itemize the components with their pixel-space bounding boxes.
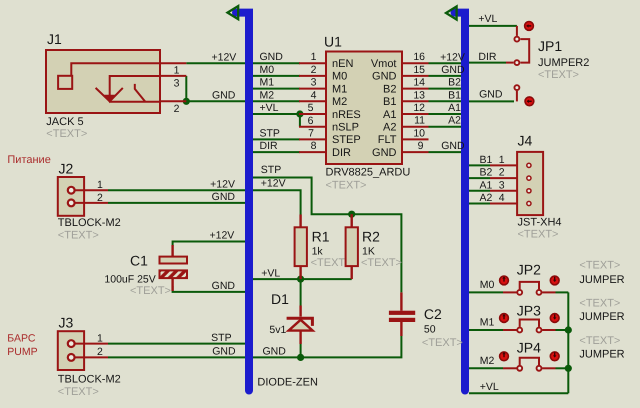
svg-text:GND: GND <box>212 191 236 203</box>
svg-text:FLT: FLT <box>378 134 397 146</box>
R1 top lead <box>299 215 301 228</box>
svg-text:+12V: +12V <box>440 51 465 63</box>
wire +12V J2 pin1 across bus to R1 top <box>108 190 301 214</box>
connector J1 JACK 5 <box>46 31 186 140</box>
wire STP left bus to U1 pin7 <box>253 138 300 140</box>
wire +VL bottom right bus to JP common <box>469 392 568 394</box>
svg-text:1K: 1K <box>362 246 375 258</box>
J3 pin circles <box>68 340 75 347</box>
JP1 jumper link bracket <box>520 39 529 63</box>
svg-text:B1: B1 <box>448 89 461 101</box>
wire +VL from left bus to R1/R2 bottoms <box>253 278 352 280</box>
svg-text:1: 1 <box>97 333 103 345</box>
svg-text:10: 10 <box>413 127 425 139</box>
bus left entry arrow <box>228 6 239 19</box>
JP2 pin circles <box>517 290 522 295</box>
J3 body <box>58 331 84 370</box>
svg-text:<TEXT>: <TEXT> <box>46 128 87 140</box>
C2 bottom lead <box>400 322 402 336</box>
junction node D1 anode / GND <box>297 354 304 361</box>
svg-text:3: 3 <box>499 179 505 191</box>
resistor R1 1k <box>295 215 352 280</box>
bus right entry arrow <box>446 6 457 19</box>
wire GND left bus to U1 pin1 <box>253 62 300 64</box>
J1 pin stubs <box>160 63 186 101</box>
wire U1 pin5 node down to pin6 <box>299 114 301 127</box>
svg-text:100uF 25V: 100uF 25V <box>104 274 155 286</box>
svg-text:4: 4 <box>311 89 317 101</box>
R1 body <box>295 227 307 266</box>
svg-text:R2: R2 <box>362 229 380 245</box>
JP1 pin 2 circle <box>514 60 519 65</box>
svg-text:D1: D1 <box>271 291 289 307</box>
wire GND J1 pin2 to left bus <box>186 100 245 102</box>
wire STP J3 pin1 to left bus <box>108 343 245 345</box>
svg-text:A2: A2 <box>383 122 396 134</box>
bus left <box>236 13 249 391</box>
svg-text:U1: U1 <box>324 34 342 50</box>
wire GND C1 bottom to left bus <box>173 286 245 292</box>
J2 pin stubs <box>75 189 108 191</box>
J1 body <box>46 50 160 113</box>
wire STP from left bus to R2/C2 top <box>253 178 401 293</box>
svg-text:16: 16 <box>413 51 425 63</box>
JP3 jumper link bracket <box>520 320 539 327</box>
wire DIR left bus to U1 pin8 <box>253 151 300 153</box>
wire M0 right bus to JP2 <box>469 291 503 293</box>
svg-text:<TEXT>: <TEXT> <box>58 230 99 242</box>
svg-text:B1: B1 <box>383 96 396 108</box>
svg-text:12: 12 <box>413 102 425 114</box>
J4 body <box>517 152 543 215</box>
svg-text:nRES: nRES <box>332 109 361 121</box>
JP4 jumper link bracket <box>520 358 539 365</box>
svg-text:M1: M1 <box>260 77 275 89</box>
svg-text:JUMPER: JUMPER <box>579 274 624 286</box>
wire M0 left bus to U1 pin2 <box>253 75 300 77</box>
svg-text:1: 1 <box>311 51 317 63</box>
svg-text:J2: J2 <box>59 161 74 177</box>
wire U1 pin9 to right bus <box>429 151 462 153</box>
U1 pin stubs 1-16 <box>299 63 429 152</box>
svg-text:15: 15 <box>413 64 425 76</box>
connector J3 TBLOCK-M2 <box>58 315 121 399</box>
JP1 pin 1 circle <box>514 37 519 42</box>
JP4 pad markers <box>500 352 509 361</box>
svg-text:+12V: +12V <box>209 230 234 242</box>
svg-text:БАРС: БАРС <box>7 333 36 345</box>
JP3 pin circles <box>517 328 522 333</box>
jumper JP3 JUMPER <box>500 303 559 333</box>
svg-text:M1: M1 <box>332 83 347 95</box>
wire A2 right bus to J4 pin4 <box>469 203 490 205</box>
svg-text:J4: J4 <box>518 133 533 149</box>
C1 positive plate <box>160 257 188 264</box>
svg-text:2: 2 <box>97 192 103 204</box>
svg-text:1: 1 <box>174 65 180 77</box>
junction node U1 pin5/pin6 <box>296 110 303 117</box>
wire B1 right bus to J4 pin1 <box>469 164 490 166</box>
JP1 pin 1 lead <box>516 26 518 36</box>
svg-text:GND: GND <box>372 71 397 83</box>
svg-text:8: 8 <box>311 140 317 152</box>
JP2 pin stubs <box>503 291 517 293</box>
svg-text:1k: 1k <box>312 246 324 258</box>
svg-text:TBLOCK-M2: TBLOCK-M2 <box>58 217 121 229</box>
J2 pin circles <box>68 187 75 194</box>
svg-text:GND: GND <box>260 51 284 63</box>
wire DIR right bus to JP1 <box>469 62 506 64</box>
svg-text:DIODE-ZEN: DIODE-ZEN <box>257 377 318 389</box>
svg-text:<TEXT>: <TEXT> <box>579 298 620 310</box>
wire U1 pin12 to right bus <box>429 113 462 115</box>
junction node JP3 right <box>565 326 572 333</box>
net labels left bus left side <box>209 51 236 357</box>
J1 jack symbol graphics <box>58 63 159 103</box>
JP3 pad markers <box>500 314 509 323</box>
svg-text:DRV8825_ARDU: DRV8825_ARDU <box>326 167 411 179</box>
svg-text:50: 50 <box>424 324 436 336</box>
svg-text:M0: M0 <box>260 64 275 76</box>
svg-text:6: 6 <box>308 115 314 127</box>
svg-text:<TEXT>: <TEXT> <box>518 229 559 241</box>
svg-text:JP3: JP3 <box>517 303 541 319</box>
svg-text:STP: STP <box>211 332 231 344</box>
svg-text:B2: B2 <box>448 77 461 89</box>
svg-text:<TEXT>: <TEXT> <box>58 386 99 398</box>
svg-text:4: 4 <box>499 192 505 204</box>
svg-text:M1: M1 <box>480 317 495 329</box>
svg-text:B1: B1 <box>480 154 493 166</box>
jumper JP1 JUMPER2 <box>506 22 589 82</box>
svg-text:JUMPER2: JUMPER2 <box>538 57 589 69</box>
capacitor C2 50 <box>389 292 463 349</box>
wire +12V J1 pin1 to left bus <box>186 62 245 64</box>
J2 body <box>58 177 84 216</box>
wire M1 left bus to U1 pin3 <box>253 88 300 90</box>
svg-text:2: 2 <box>174 103 180 115</box>
U1 pin numbers <box>308 51 425 152</box>
C1 negative hatched plate <box>160 270 188 278</box>
svg-text:+12V: +12V <box>210 178 235 190</box>
junction node J1 pin2/pin3 <box>183 98 190 105</box>
wire JP3 right pin to right vertical <box>556 329 569 331</box>
wire right vertical JP2/JP3/JP4 common <box>567 292 569 393</box>
JP2 jumper link bracket <box>520 282 539 289</box>
svg-text:GND: GND <box>212 89 236 101</box>
svg-text:3: 3 <box>311 77 317 89</box>
svg-text:14: 14 <box>413 77 425 89</box>
svg-text:M0: M0 <box>332 71 347 83</box>
J4 pin circles <box>527 163 531 167</box>
svg-text:+VL: +VL <box>478 13 497 25</box>
C2 top plate <box>389 311 415 315</box>
svg-text:DIR: DIR <box>478 51 497 63</box>
U1 left pin names <box>332 58 361 159</box>
svg-text:STEP: STEP <box>332 134 361 146</box>
C1 top lead <box>171 245 173 257</box>
svg-text:GND: GND <box>212 346 236 358</box>
svg-text:JST-XH4: JST-XH4 <box>518 217 562 229</box>
labels JP right column <box>579 260 624 361</box>
junction node R1 bottom / D1 / +VL <box>297 276 304 283</box>
svg-text:Питание: Питание <box>7 154 50 166</box>
svg-text:JUMPER: JUMPER <box>579 349 624 361</box>
JP1 pin 2 lead <box>506 62 513 64</box>
svg-text:C1: C1 <box>130 253 148 269</box>
jumper JP2 JUMPER <box>500 262 559 295</box>
net labels right bus left side <box>440 51 465 152</box>
capacitor C1 100uF 25V <box>104 245 187 297</box>
svg-text:GND: GND <box>441 64 465 76</box>
svg-text:JACK 5: JACK 5 <box>46 116 83 128</box>
wire B2 right bus to J4 pin2 <box>469 177 490 179</box>
jumper JP1 lower pin and pad (GND) <box>514 85 533 106</box>
svg-text:<TEXT>: <TEXT> <box>361 257 402 269</box>
connector J2 TBLOCK-M2 <box>58 161 121 242</box>
svg-text:13: 13 <box>413 89 425 101</box>
JP3 pin stubs <box>503 329 517 331</box>
svg-text:<TEXT>: <TEXT> <box>538 69 579 81</box>
wire GND net J3 pin2 across bus to D1 anode and C2 bottom <box>108 336 401 357</box>
svg-text:STP: STP <box>260 127 280 139</box>
wire U1 pin15 to right bus <box>429 75 462 77</box>
svg-text:M2: M2 <box>480 355 495 367</box>
JP1 pad marker top <box>525 22 534 31</box>
svg-text:M2: M2 <box>332 96 347 108</box>
svg-text:J3: J3 <box>59 315 74 331</box>
svg-text:A2: A2 <box>448 115 461 127</box>
svg-text:B2: B2 <box>480 167 493 179</box>
svg-text:5v1: 5v1 <box>269 324 286 336</box>
R2 top lead <box>351 214 353 227</box>
wire JP2 right pin to right vertical <box>556 291 569 293</box>
C1 bottom lead <box>171 278 173 291</box>
wire M2 left bus to U1 pin4 <box>253 100 300 102</box>
connector J4 JST-XH4 <box>480 133 562 241</box>
wire U1 pin14 to right bus <box>429 88 462 90</box>
svg-text:5: 5 <box>308 102 314 114</box>
JP4 pin stubs <box>503 367 517 369</box>
junction node JP4 right <box>565 365 572 372</box>
wire JP4 right pin to right vertical <box>556 367 569 369</box>
U1 body <box>326 52 402 165</box>
svg-text:A1: A1 <box>480 179 493 191</box>
resistor R2 1K <box>346 214 402 279</box>
wire U1 pin11 to right bus <box>429 126 462 128</box>
net labels left bus right side <box>260 51 287 357</box>
svg-text:1: 1 <box>499 154 505 166</box>
wire J1 pin3 vertical to pin2 node <box>185 76 187 101</box>
svg-text:DIR: DIR <box>260 140 279 152</box>
svg-text:2: 2 <box>499 167 505 179</box>
U1 right pin names <box>371 58 397 159</box>
svg-text:+VL: +VL <box>260 102 279 114</box>
C2 top lead <box>400 292 402 310</box>
wire +VL left bus to U1 pin5 <box>253 113 300 115</box>
svg-text:3: 3 <box>174 78 180 90</box>
wire A1 right bus to J4 pin3 <box>469 190 490 192</box>
J4 pin stubs <box>490 164 517 166</box>
svg-text:<TEXT>: <TEXT> <box>579 335 620 347</box>
net labels right bus right side <box>478 13 502 101</box>
svg-text:+12V: +12V <box>211 51 236 63</box>
junction node R2 top / STP <box>348 211 355 218</box>
D1 anode triangle <box>289 320 313 331</box>
svg-text:J1: J1 <box>47 31 62 47</box>
bus right <box>455 13 466 391</box>
svg-text:<TEXT>: <TEXT> <box>422 337 463 349</box>
svg-text:R1: R1 <box>312 229 330 245</box>
svg-text:nSLP: nSLP <box>332 122 359 134</box>
svg-text:2: 2 <box>311 64 317 76</box>
wire +12V C1 top to left bus <box>173 242 245 247</box>
svg-text:GND: GND <box>479 89 503 101</box>
JP2 pad markers <box>500 276 509 285</box>
svg-text:B2: B2 <box>383 83 396 95</box>
svg-text:M2: M2 <box>260 89 275 101</box>
wire GND J2 pin2 to left bus <box>108 202 245 204</box>
svg-text:PUMP: PUMP <box>7 346 37 358</box>
svg-text:11: 11 <box>414 115 425 127</box>
wire +VL right bus to JP1 <box>469 25 517 27</box>
svg-text:GND: GND <box>263 346 287 358</box>
wire D1 anode to GND net <box>300 344 302 357</box>
svg-text:<TEXT>: <TEXT> <box>130 285 171 297</box>
R1 bottom lead <box>299 266 301 279</box>
wire U1 pin13 to right bus <box>429 100 462 102</box>
svg-text:A1: A1 <box>448 102 461 114</box>
svg-text:DIR: DIR <box>332 147 351 159</box>
wire M1 right bus to JP3 <box>469 329 503 331</box>
svg-text:M0: M0 <box>480 279 495 291</box>
wire GND right bus to JP1 lower pin <box>469 100 514 102</box>
svg-text:TBLOCK-M2: TBLOCK-M2 <box>58 374 121 386</box>
R2 body <box>346 227 358 266</box>
jumper JP4 JUMPER <box>500 340 559 371</box>
svg-text:+VL: +VL <box>480 381 499 393</box>
svg-text:<TEXT>: <TEXT> <box>326 180 367 192</box>
svg-text:nEN: nEN <box>332 58 353 70</box>
svg-text:C2: C2 <box>424 306 442 322</box>
svg-text:GND: GND <box>441 140 465 152</box>
svg-text:A1: A1 <box>383 109 396 121</box>
svg-text:7: 7 <box>308 127 314 139</box>
R2 bottom lead <box>351 266 353 279</box>
wire M2 right bus to JP4 <box>469 367 503 369</box>
wire D1 cathode to +VL node <box>300 279 302 305</box>
svg-text:JUMPER: JUMPER <box>579 311 624 323</box>
JP4 pin circles <box>517 366 522 371</box>
op-amp/driver IC U1 DRV8825_ARDU <box>299 34 429 192</box>
svg-text:JP4: JP4 <box>517 340 541 356</box>
svg-text:9: 9 <box>418 140 424 152</box>
svg-text:JP2: JP2 <box>517 262 541 278</box>
svg-text:+12V: +12V <box>261 178 286 190</box>
svg-text:STP: STP <box>261 164 281 176</box>
svg-text:+VL: +VL <box>261 267 280 279</box>
J3 pin stubs <box>75 343 108 345</box>
svg-text:2: 2 <box>97 346 103 358</box>
svg-text:<TEXT>: <TEXT> <box>579 260 620 272</box>
svg-text:1: 1 <box>97 179 103 191</box>
wire U1 pin16 to right bus <box>429 62 462 64</box>
svg-text:Vmot: Vmot <box>371 58 397 70</box>
zener diode D1 5v1 DIODE-ZEN <box>257 291 318 389</box>
D1 anode lead <box>299 331 301 344</box>
C2 bottom plate <box>389 318 415 322</box>
svg-text:JP1: JP1 <box>538 38 562 54</box>
svg-text:GND: GND <box>212 280 236 292</box>
svg-text:GND: GND <box>372 147 397 159</box>
svg-text:A2: A2 <box>480 192 493 204</box>
D1 cathode lead <box>299 306 301 317</box>
D1 zener cathode bar <box>287 318 313 326</box>
